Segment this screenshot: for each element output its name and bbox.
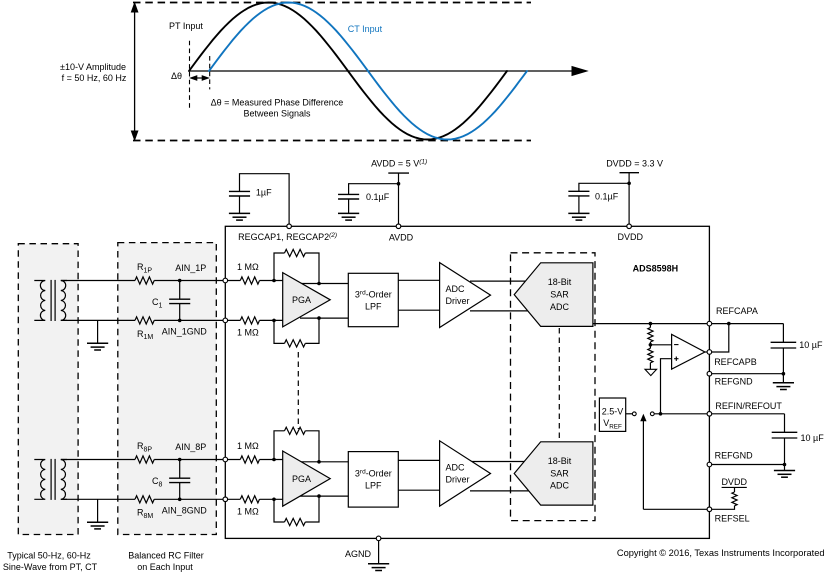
svg-text:AIN_1P: AIN_1P: [175, 263, 206, 273]
wire SAR ADC to REFCAPA: [593, 323, 707, 325]
svg-text:Δθ: Δθ: [171, 71, 182, 81]
svg-text:AIN_1GND: AIN_1GND: [162, 327, 208, 337]
svg-text:1 MΩ: 1 MΩ: [237, 441, 259, 451]
label phase difference explanation: [211, 98, 344, 119]
wire ADC driver 8 to SAR ADC: [470, 462, 530, 491]
ground arrow reference divider: [645, 369, 657, 375]
wire VREF to switch: [626, 413, 633, 415]
wire channel 1 negative input: [61, 319, 283, 321]
svg-text:Driver: Driver: [446, 296, 470, 306]
pin REGCAP terminal: [287, 224, 292, 229]
label balanced RC filter: [128, 550, 204, 571]
switch contact left: [632, 412, 636, 416]
label 0.1uF AVDD: [366, 192, 390, 202]
svg-text:Balanced RC Filter: Balanced RC Filter: [128, 550, 204, 560]
svg-text:LPF: LPF: [365, 301, 382, 311]
ground for 1uF: [229, 213, 250, 220]
wire channel 1 positive input: [61, 280, 283, 282]
node AIN_8GND: [162, 505, 208, 515]
wire PGA8 outputs to LPF: [300, 462, 348, 496]
adc 18-bit SAR ADC channel 1: [514, 263, 593, 327]
wire buffer noninverting input: [661, 359, 672, 414]
junction divider midpoint: [649, 343, 653, 347]
resistor 1 Mohm channel 1 bottom: [240, 317, 259, 324]
wire REFGND lower to cap: [712, 463, 787, 467]
pin AVDD terminal: [396, 224, 401, 229]
svg-text:Copyright © 2016, Texas Instru: Copyright © 2016, Texas Instruments Inco…: [617, 548, 825, 558]
op-amp PGA8: [283, 451, 331, 506]
svg-text:Between Signals: Between Signals: [243, 108, 311, 118]
svg-text:DVDD = 3.3 V: DVDD = 3.3 V: [606, 159, 663, 169]
phase difference double arrow: [190, 76, 208, 81]
wire AVDD cap branch: [349, 184, 399, 195]
adc 18-bit SAR ADC channel 8: [514, 442, 593, 505]
svg-text:AIN_8GND: AIN_8GND: [162, 505, 208, 515]
wire AVDD riser: [398, 173, 400, 224]
net DVDD pull-up label: [721, 477, 747, 487]
node amplitude-bottom dashed limit line: [133, 140, 531, 142]
wire buffer output to REFCAPB: [705, 351, 707, 353]
resistor PGA feedback top channel 1: [272, 249, 321, 285]
ground for AVDD cap: [338, 213, 359, 220]
transformer T8: [34, 459, 67, 500]
label DVDD: [618, 232, 644, 242]
label 0.1uF DVDD: [595, 192, 619, 202]
junction DVDD branch: [627, 182, 631, 186]
op-amp ADC driver 8: [440, 441, 491, 506]
net AVDD = 5 V supply: [371, 158, 427, 168]
svg-text:REFGND: REFGND: [715, 377, 754, 387]
transformer input dashed box: [18, 244, 78, 535]
label amplitude: [60, 62, 127, 83]
label 1uF: [256, 187, 272, 197]
svg-text:DVDD: DVDD: [618, 232, 644, 242]
label delta-theta: [171, 71, 182, 81]
junction AVDD branch: [397, 182, 401, 186]
svg-text:0.1µF: 0.1µF: [366, 192, 390, 202]
capacitor 1uF: [229, 191, 250, 213]
svg-text:PGA: PGA: [292, 474, 311, 484]
block 3rd-order LPF channel 1: [348, 273, 398, 326]
svg-text:ADC: ADC: [550, 481, 570, 491]
svg-text:1 MΩ: 1 MΩ: [237, 262, 259, 272]
label REFIN/REFOUT: [715, 401, 782, 411]
wire LPF8 to ADC driver: [398, 460, 450, 490]
svg-text:ADS8598H: ADS8598H: [633, 264, 679, 274]
label typical sine-wave source: [3, 550, 98, 571]
svg-text:AVDD: AVDD: [389, 233, 414, 243]
ground transformer T8: [87, 499, 108, 529]
dashed continuation line between SAR ADCs: [558, 328, 560, 440]
ground AGND: [368, 541, 389, 571]
label REFCAPB: [714, 357, 757, 367]
svg-text:Driver: Driver: [446, 474, 470, 484]
resistor R8P: [135, 456, 154, 463]
label AVDD: [389, 233, 414, 243]
svg-text:REFCAPA: REFCAPA: [716, 306, 758, 316]
label ADS8598H: [633, 264, 679, 274]
svg-text:ADC: ADC: [446, 284, 466, 294]
svg-text:DVDD: DVDD: [721, 477, 747, 487]
resistor REFSEL pull-up: [712, 487, 737, 509]
label R8M: [137, 508, 153, 520]
ground for DVDD cap: [568, 213, 589, 220]
REFSEL control arrow: [641, 415, 646, 509]
node AIN_8P: [175, 442, 206, 452]
svg-text:AGND: AGND: [345, 549, 372, 559]
block 3rd-order LPF channel 8: [348, 452, 398, 508]
label REFSEL: [715, 514, 750, 524]
resistor 1 Mohm channel 1 top: [240, 277, 259, 284]
svg-text:Typical 50-Hz, 60-Hz: Typical 50-Hz, 60-Hz: [7, 550, 91, 560]
node phase reference dashed line 2: [209, 56, 211, 89]
svg-text:1µF: 1µF: [256, 187, 272, 197]
pin REFCAPA terminal: [707, 321, 712, 326]
junction REFCAPA divider tap: [649, 322, 653, 326]
label REFGND upper: [715, 377, 754, 387]
svg-text:REFCAPB: REFCAPB: [714, 357, 757, 367]
capacitor 10uF REFCAP: [771, 342, 797, 373]
node amplitude-top dashed limit line: [133, 2, 531, 4]
pin AIN_8GND terminal: [223, 497, 228, 502]
svg-text:AVDD = 5 V(1): AVDD = 5 V(1): [371, 158, 427, 168]
label R1M: [137, 329, 153, 341]
wire ADC driver 1 to SAR ADC: [470, 281, 530, 311]
svg-text:SAR: SAR: [550, 469, 569, 479]
ground transformer T1: [87, 320, 108, 350]
resistor PGA feedback bottom channel 8: [272, 494, 321, 525]
wire channel 8 positive input: [61, 459, 283, 461]
op-amp PGA1: [283, 273, 331, 327]
ground REFGND: [773, 374, 794, 390]
svg-text:PGA: PGA: [292, 295, 311, 305]
resistor reference divider upper: [648, 324, 653, 345]
resistor 1 Mohm channel 8 top: [240, 456, 259, 463]
svg-text:on Each Input: on Each Input: [137, 562, 193, 572]
wire REFGND to cap: [712, 372, 786, 376]
wire buffer feedback from REFCAPA: [712, 322, 731, 352]
svg-text:Δθ = Measured Phase Difference: Δθ = Measured Phase Difference: [211, 98, 344, 108]
wire switch to REFIN/REFOUT: [654, 413, 707, 415]
pin AGND terminal: [376, 536, 381, 541]
svg-text:±10-V Amplitude: ±10-V Amplitude: [60, 62, 126, 72]
label C1: [152, 297, 163, 309]
resistor reference divider lower: [648, 345, 653, 370]
wire REGCAP riser: [240, 174, 290, 224]
RC filter dashed box: [118, 243, 217, 535]
svg-text:ADC: ADC: [446, 462, 466, 472]
CT input sine wave (blue): [209, 3, 527, 140]
resistor R1P: [135, 277, 154, 284]
pin AIN_8P terminal: [223, 457, 228, 462]
DVDD supply rail bar: [620, 172, 640, 174]
label 1 Mohm channel 1 bottom: [237, 328, 259, 338]
pin REFGND terminal lower: [707, 462, 712, 467]
wire DVDD cap branch: [579, 183, 629, 191]
label AGND: [345, 549, 372, 559]
svg-text:ADC: ADC: [550, 302, 570, 312]
svg-text:1 MΩ: 1 MΩ: [237, 328, 259, 338]
time axis with arrow: [189, 67, 587, 76]
svg-text:REGCAP1, REGCAP2(2): REGCAP1, REGCAP2(2): [238, 232, 337, 242]
pin AIN_1P terminal: [223, 278, 228, 283]
transformer T1: [34, 280, 67, 321]
pin DVDD terminal: [627, 224, 632, 229]
svg-text:18-Bit: 18-Bit: [548, 456, 572, 466]
switch contact right: [650, 412, 654, 416]
label C8: [152, 476, 163, 488]
pin REFGND terminal upper: [707, 371, 712, 376]
op-amp reference buffer: [672, 334, 705, 369]
wire REFCAPA to bypass cap: [712, 324, 784, 343]
svg-text:0.1µF: 0.1µF: [595, 192, 619, 202]
svg-text:f = 50 Hz, 60 Hz: f = 50 Hz, 60 Hz: [62, 73, 127, 83]
pin AIN_1GND terminal: [223, 318, 228, 323]
label REFGND lower: [715, 450, 754, 460]
node phase reference dashed line 1: [189, 41, 191, 109]
resistor R8M: [135, 496, 154, 503]
label 1 Mohm channel 8 top: [237, 441, 259, 451]
svg-text:10 µF: 10 µF: [799, 340, 823, 350]
IC ADS8598H boundary box: [225, 226, 709, 538]
junction buffer input tap: [659, 412, 663, 416]
svg-text:REFGND: REFGND: [715, 450, 754, 460]
capacitor 10uF REFIN: [772, 432, 798, 464]
label CT Input: [348, 24, 383, 34]
capacitor C8: [169, 458, 190, 501]
svg-text:REFSEL: REFSEL: [715, 514, 750, 524]
pin REFSEL terminal: [707, 507, 712, 512]
resistor PGA feedback top channel 8: [272, 427, 321, 463]
svg-text:18-Bit: 18-Bit: [548, 277, 572, 287]
svg-text:PT Input: PT Input: [169, 21, 203, 31]
label 1 Mohm channel 1 top: [237, 262, 259, 272]
wire PGA1 outputs to LPF: [300, 284, 348, 319]
pin REFIN/REFOUT terminal: [707, 412, 712, 417]
resistor R1M: [135, 317, 154, 324]
label 10uF REFIN: [801, 433, 825, 443]
net DVDD = 3.3 V supply: [606, 159, 663, 169]
capacitor 0.1uF AVDD: [338, 194, 359, 213]
label R8P: [137, 441, 152, 453]
label REFCAPA: [716, 306, 758, 316]
AVDD supply rail bar: [388, 172, 409, 174]
wire REFIN/REFOUT to cap: [712, 414, 785, 433]
svg-text:LPF: LPF: [365, 481, 382, 491]
dashed continuation line between PGA channels: [297, 352, 299, 429]
capacitor 0.1uF DVDD: [568, 191, 589, 213]
node AIN_1GND: [162, 327, 208, 337]
pin REFCAPB terminal: [707, 350, 712, 355]
capacitor C1: [169, 279, 190, 323]
resistor PGA feedback bottom channel 1: [272, 316, 321, 347]
wire REFSEL to switch arrow: [643, 508, 707, 510]
svg-text:CT Input: CT Input: [348, 24, 383, 34]
voltage reference 2.5-V VREF: [599, 398, 625, 431]
node AIN_1P: [175, 263, 206, 273]
label REGCAP1, REGCAP2: [238, 232, 337, 242]
op-amp ADC driver 1: [440, 263, 491, 328]
label PT Input: [169, 21, 203, 31]
svg-text:SAR: SAR: [550, 290, 569, 300]
PT input sine wave (black): [189, 3, 507, 140]
wire channel 8 negative input: [61, 498, 283, 500]
label 10uF REFCAP: [799, 340, 823, 350]
svg-text:Sine-Wave from PT, CT: Sine-Wave from PT, CT: [3, 562, 98, 572]
wire DVDD riser: [628, 173, 630, 224]
dashed box around SAR ADCs: [511, 253, 596, 521]
svg-text:1 MΩ: 1 MΩ: [237, 507, 259, 517]
resistor 1 Mohm channel 8 bottom: [240, 496, 259, 503]
wire LPF1 to ADC driver: [398, 280, 450, 310]
svg-text:AIN_8P: AIN_8P: [175, 442, 206, 452]
svg-text:2.5-V: 2.5-V: [602, 407, 624, 417]
label 1 Mohm channel 8 bottom: [237, 507, 259, 517]
label copyright: [617, 548, 825, 558]
svg-text:REFIN/REFOUT: REFIN/REFOUT: [715, 401, 782, 411]
ground REFGND lower: [774, 465, 795, 478]
wire divider to buffer inverting input: [650, 344, 671, 346]
amplitude double arrow: [131, 3, 137, 140]
svg-text:10 µF: 10 µF: [801, 433, 825, 443]
label R1P: [137, 262, 152, 274]
